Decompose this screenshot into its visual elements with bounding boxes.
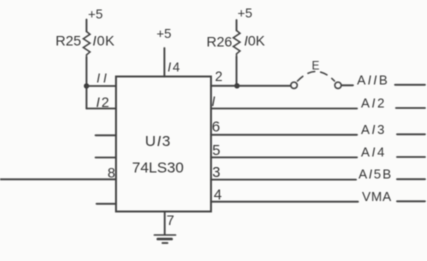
wire pin 14 stub xyxy=(163,48,165,77)
svg-text:I: I xyxy=(212,94,216,109)
jumper terminal circle (right) xyxy=(335,82,341,88)
svg-text:I4: I4 xyxy=(168,60,182,75)
svg-text:6: 6 xyxy=(212,119,220,136)
wire pin 1 (A12) xyxy=(211,108,357,110)
svg-text:I0K: I0K xyxy=(244,33,266,49)
svg-text:8: 8 xyxy=(108,165,116,181)
svg-text:+5: +5 xyxy=(88,7,103,22)
wire A15B to right edge xyxy=(397,178,425,180)
svg-text:AI5B: AI5B xyxy=(359,167,393,182)
wire pin 6 (A13) xyxy=(211,134,357,136)
wire pin 8 (to left edge) xyxy=(0,178,116,180)
svg-text:R26: R26 xyxy=(207,34,233,50)
wire A11B to right edge xyxy=(395,84,425,86)
wire +5 to R25 xyxy=(86,20,88,32)
wire R26 to pin 2 line xyxy=(236,57,238,86)
wire pin 5 (A14) xyxy=(211,156,357,158)
junction dot (R26/pin 2) xyxy=(234,83,239,88)
svg-text:UI3: UI3 xyxy=(145,133,171,150)
jumper terminal circle (left) xyxy=(291,82,297,88)
svg-text:VMA: VMA xyxy=(362,189,392,204)
wire A14 to right edge xyxy=(397,156,425,158)
svg-text:AIIB: AIIB xyxy=(357,73,390,88)
wire VMA to right edge xyxy=(397,200,425,202)
resistor R26 xyxy=(233,31,240,58)
wire +5 to R26 xyxy=(236,20,238,31)
left stub (unused input) xyxy=(96,157,117,159)
wire pin 4 (VMA) xyxy=(211,201,358,203)
resistor R25 xyxy=(83,32,90,58)
left stub (unused input) xyxy=(96,134,117,136)
svg-text:AI3: AI3 xyxy=(361,122,387,137)
junction dot (R25/pins 11-12) xyxy=(84,83,89,88)
wire junction down to pin 12 xyxy=(86,86,88,109)
svg-text:2: 2 xyxy=(215,69,223,84)
wire pin 2 to jumper xyxy=(211,85,291,87)
wire R25 to junction xyxy=(86,58,88,87)
op IC U13 box xyxy=(116,77,211,212)
svg-text:74LS30: 74LS30 xyxy=(132,160,184,177)
svg-text:+5: +5 xyxy=(238,6,253,21)
svg-text:I0K: I0K xyxy=(93,33,116,49)
wire A13 to right edge xyxy=(397,133,425,135)
ground xyxy=(154,235,175,243)
svg-text:E: E xyxy=(312,61,320,73)
svg-text:AI4: AI4 xyxy=(361,145,387,160)
svg-text:AI2: AI2 xyxy=(361,96,387,111)
svg-text:I2: I2 xyxy=(96,94,111,110)
wire pin 11 xyxy=(87,85,117,87)
svg-text:3: 3 xyxy=(212,165,220,181)
wire jumper to A11B xyxy=(342,84,354,86)
svg-text:II: II xyxy=(97,71,110,86)
wire pin 3 (A15B) xyxy=(211,179,356,181)
jumper E dashed link xyxy=(298,72,335,82)
wire A12 to right edge xyxy=(396,107,425,109)
left stub (unused input) xyxy=(97,203,117,205)
svg-text:7: 7 xyxy=(167,212,175,228)
svg-text:+5: +5 xyxy=(157,26,172,41)
svg-text:R25: R25 xyxy=(56,33,82,49)
wire ground stem xyxy=(164,212,166,235)
wire pin 12 xyxy=(87,108,117,110)
